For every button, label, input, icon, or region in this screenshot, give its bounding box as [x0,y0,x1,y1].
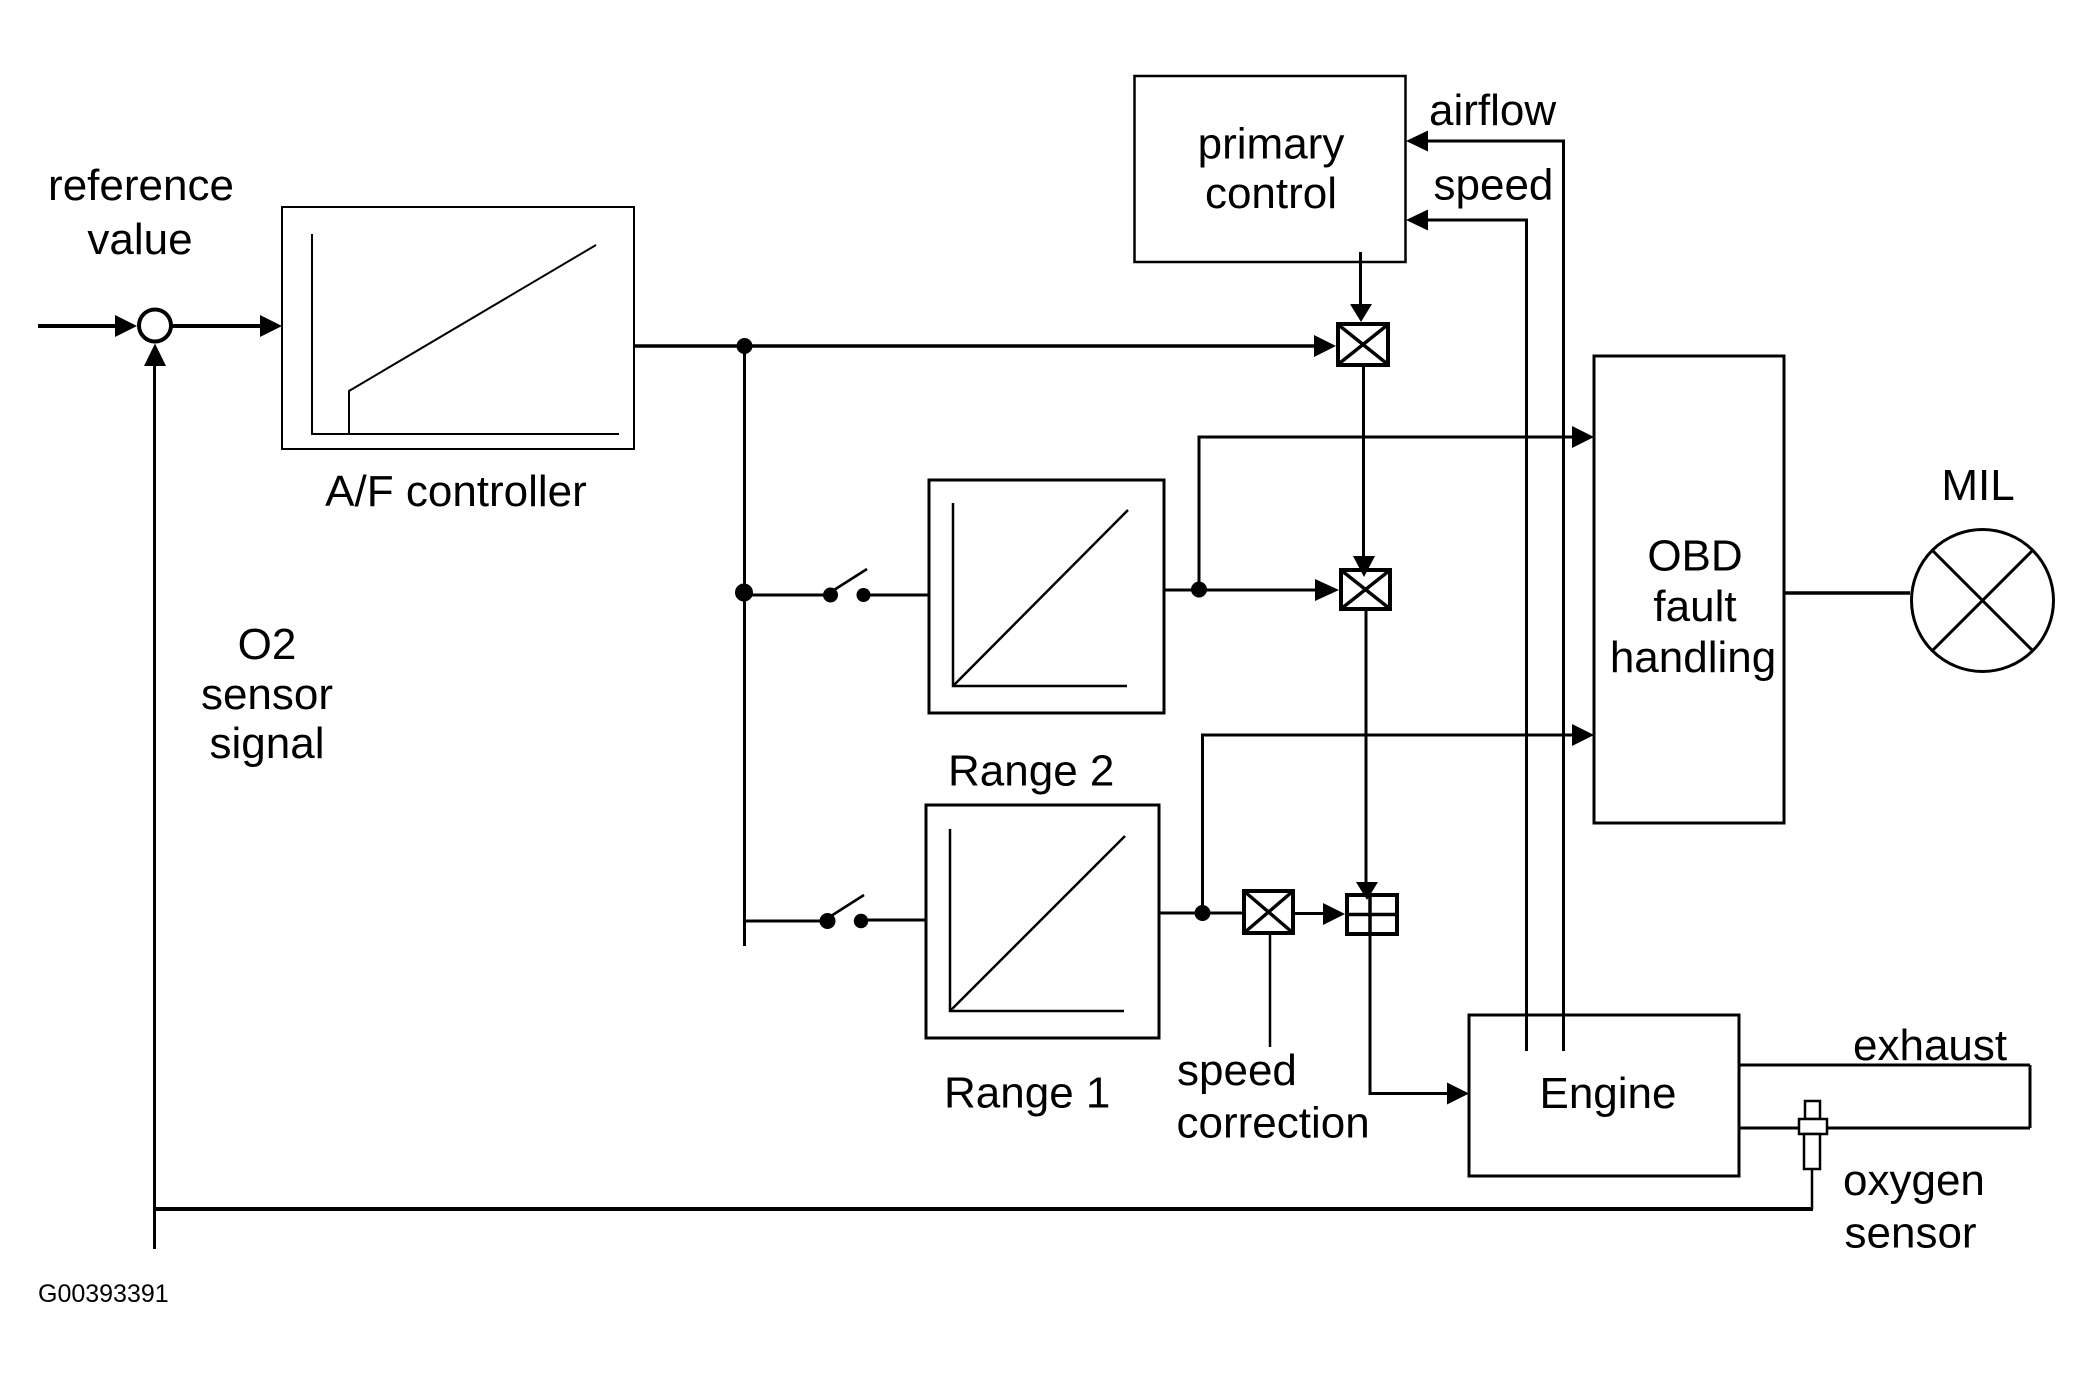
arrowhead into A/F controller [260,315,282,337]
label: O2 sensor signal [201,620,333,768]
svg-text:speed: speed [1177,1046,1297,1095]
wire: speed correction multiplier to adder [1293,912,1325,915]
summing junction circle [139,310,171,342]
wire: airflow feedback (engine to primary control) [1428,141,1564,1051]
exhaust pipe [1739,1065,2030,1128]
wire: airflow into primary control [1428,140,1564,143]
Range 2 box [929,480,1164,713]
wire: primary control down to multiplier 1 [1359,252,1362,306]
Range 1 box [926,805,1159,1038]
wire: speed feedback (engine to primary control) [1428,220,1527,1051]
label: reference value [48,161,234,264]
svg-text:airflow: airflow [1429,86,1556,135]
OBD fault handling box [1594,356,1784,823]
arrowhead speed into primary control [1406,210,1428,231]
primary control box [1135,76,1406,262]
svg-text:fault: fault [1653,582,1736,631]
wire: speed into primary control [1428,219,1526,222]
wire: Range 2 output to multiplier 2 [1164,589,1317,592]
svg-text:reference: reference [48,161,234,210]
wire: up from junction to OBD input 2 [1203,735,1575,913]
label: oxygen sensor [1843,1156,1985,1258]
arrowhead into summing junction bottom [144,344,166,367]
arrowhead into Engine [1447,1083,1469,1105]
svg-text:Engine: Engine [1539,1069,1676,1118]
wire: adder output down and right to Engine [1370,936,1449,1094]
speed correction multiplier (x-in-box) [1244,891,1293,933]
label: speed correction [1177,1046,1370,1148]
arrowhead into multiplier 2 [1315,579,1339,601]
wire: switch to Range 1 box [868,919,926,922]
junction dot at Range 2 branch [735,584,753,602]
Range 2 graph axes [953,503,1127,686]
svg-text:Range 2: Range 2 [948,747,1114,796]
svg-text:exhaust: exhaust [1853,1021,2007,1070]
svg-text:O2: O2 [238,620,297,669]
arrowhead into multiplier 2 top [1353,556,1375,577]
wire: up from junction to OBD input 1 [1199,437,1574,590]
svg-text:speed: speed [1434,161,1554,210]
arrowhead into OBD input 1 [1572,426,1594,448]
MIL lamp symbol [1912,530,2054,672]
svg-text:primary: primary [1198,120,1345,169]
arrowhead into adder top [1356,882,1378,900]
arrowhead airflow into primary control [1406,131,1428,152]
junction dot on Range 2 output [1191,582,1207,598]
svg-text:signal: signal [210,719,325,768]
svg-text:sensor: sensor [201,670,333,719]
Range 2 diagonal curve [953,510,1128,686]
wire: vertical branch down from junction [743,346,746,946]
arrowhead into adder left [1323,903,1345,925]
svg-text:handling: handling [1610,633,1776,682]
wire: multiplier 1 to multiplier 2 [1362,367,1365,558]
label: OBD fault handling [1610,532,1776,683]
Range 1 graph axes [950,829,1124,1011]
wire: branch to Range 2 switch [744,594,824,597]
wire: OBD to MIL [1784,591,1910,595]
svg-text:correction: correction [1177,1099,1370,1148]
switch for Range 1: contacts and lever [820,913,836,929]
wire: O2 feedback bottom line [155,1207,1814,1211]
adder (plus-in-box) [1347,895,1397,934]
svg-text:control: control [1205,169,1337,218]
arrowhead into OBD input 2 [1572,724,1594,746]
wire: O2 feedback vertical to summing junction [153,364,156,1249]
svg-text:OBD: OBD [1647,532,1742,581]
multiplier 1 (x-in-box) [1338,324,1388,365]
A/F controller graph axes [312,234,619,434]
wire: multiplier 2 down to adder [1365,611,1368,884]
junction dot on A/F output [737,338,753,354]
svg-text:MIL: MIL [1941,461,2014,510]
Range 1 diagonal curve [950,836,1125,1011]
wire: switch to Range 2 box [870,594,929,597]
svg-text:Range 1: Range 1 [944,1069,1110,1118]
multiplier 2 (x-in-box) [1341,570,1390,609]
svg-text:sensor: sensor [1845,1209,1977,1258]
switch for Range 2: contacts and lever [823,588,838,603]
wire: reference input line [38,324,118,328]
wire: A/F controller output to multiplier 1 [634,344,1316,348]
arrowhead into multiplier 1 top [1350,304,1372,322]
svg-text:value: value [87,215,192,264]
svg-text:G00393391: G00393391 [38,1280,169,1308]
svg-text:oxygen: oxygen [1843,1156,1985,1205]
Engine box [1469,1015,1739,1176]
wire: summing junction to A/F controller [171,324,262,328]
arrowhead into multiplier 1 [1314,335,1336,357]
junction dot on Range 1 output [1195,905,1211,921]
A/F controller curve (step + ramp) [349,245,596,434]
wire: Range 1 output to speed correction multiplier [1159,912,1242,915]
arrowhead into summing junction [115,315,137,337]
wire: Range 1 branch from vertical line [744,920,824,923]
oxygen sensor symbol [1799,1101,1827,1209]
svg-text:A/F controller: A/F controller [325,467,587,516]
A/F controller box [282,207,634,449]
label: primary control [1198,120,1345,219]
wire: label line below speed correction multiplier [1269,935,1272,1047]
